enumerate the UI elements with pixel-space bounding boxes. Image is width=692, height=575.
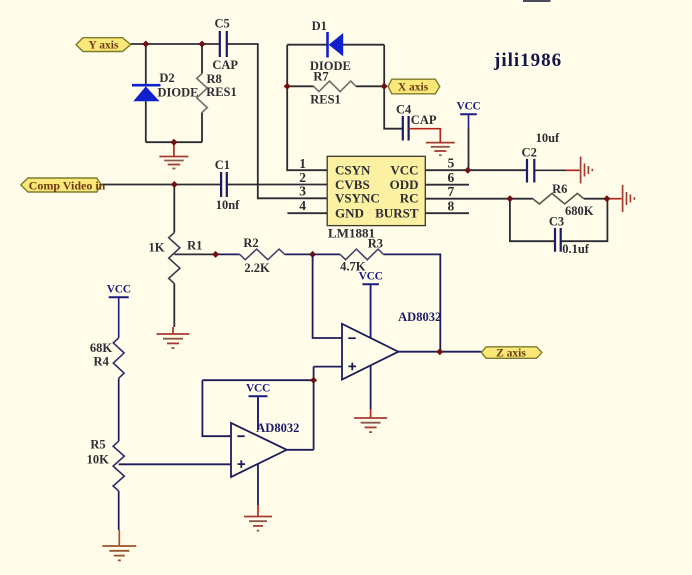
svg-text:AD8032: AD8032 <box>256 421 299 435</box>
svg-text:Y axis: Y axis <box>89 40 119 52</box>
svg-text:4.7K: 4.7K <box>340 260 366 274</box>
svg-text:68K: 68K <box>90 341 113 355</box>
svg-text:Comp Video in: Comp Video in <box>29 179 106 193</box>
svg-text:2: 2 <box>299 170 306 185</box>
svg-text:R6: R6 <box>552 182 567 196</box>
svg-text:VCC: VCC <box>107 284 131 296</box>
svg-text:10uf: 10uf <box>536 131 560 145</box>
svg-text:0.1uf: 0.1uf <box>562 242 590 256</box>
svg-text:2.2K: 2.2K <box>244 261 270 275</box>
svg-text:10K: 10K <box>87 453 110 467</box>
svg-text:RC: RC <box>400 191 419 206</box>
svg-text:jili1986: jili1986 <box>493 50 562 71</box>
svg-text:X axis: X axis <box>398 82 429 94</box>
svg-text:4: 4 <box>299 198 306 213</box>
svg-text:R2: R2 <box>243 236 258 250</box>
svg-text:AD8032: AD8032 <box>398 310 441 324</box>
svg-text:Z axis: Z axis <box>496 348 526 360</box>
svg-text:VSYNC: VSYNC <box>335 191 380 206</box>
svg-text:ODD: ODD <box>390 177 419 192</box>
svg-text:BURST: BURST <box>375 205 419 220</box>
svg-text:CSYN: CSYN <box>335 162 371 177</box>
svg-text:RES1: RES1 <box>206 85 237 99</box>
svg-text:LM1881: LM1881 <box>328 226 375 241</box>
svg-text:CVBS: CVBS <box>335 177 370 192</box>
svg-text:7: 7 <box>448 184 455 199</box>
svg-text:R7: R7 <box>313 70 328 84</box>
svg-text:C4: C4 <box>396 102 412 116</box>
svg-text:DIODE: DIODE <box>158 86 199 100</box>
svg-text:3: 3 <box>299 184 306 199</box>
svg-text:RES1: RES1 <box>310 93 341 107</box>
svg-text:5: 5 <box>448 156 455 171</box>
svg-text:VCC: VCC <box>456 101 480 113</box>
svg-text:VCC: VCC <box>246 383 270 395</box>
svg-text:R1: R1 <box>187 239 202 253</box>
svg-text:VCC: VCC <box>390 162 418 177</box>
svg-text:CAP: CAP <box>411 113 437 127</box>
svg-text:D1: D1 <box>312 19 327 33</box>
svg-text:R5: R5 <box>90 438 105 452</box>
svg-text:C3: C3 <box>549 215 564 229</box>
svg-text:R4: R4 <box>94 355 110 369</box>
svg-text:D2: D2 <box>159 71 174 85</box>
svg-text:6: 6 <box>448 170 455 185</box>
svg-text:C1: C1 <box>215 158 230 172</box>
svg-text:10nf: 10nf <box>216 198 240 212</box>
svg-text:1: 1 <box>299 156 306 171</box>
svg-text:GND: GND <box>335 205 364 220</box>
svg-text:1K: 1K <box>149 241 165 255</box>
svg-text:CAP: CAP <box>212 58 238 72</box>
svg-text:680K: 680K <box>565 204 594 218</box>
svg-text:C5: C5 <box>214 16 229 30</box>
svg-text:R8: R8 <box>207 72 222 86</box>
svg-text:8: 8 <box>448 199 455 214</box>
svg-text:C2: C2 <box>522 146 537 160</box>
